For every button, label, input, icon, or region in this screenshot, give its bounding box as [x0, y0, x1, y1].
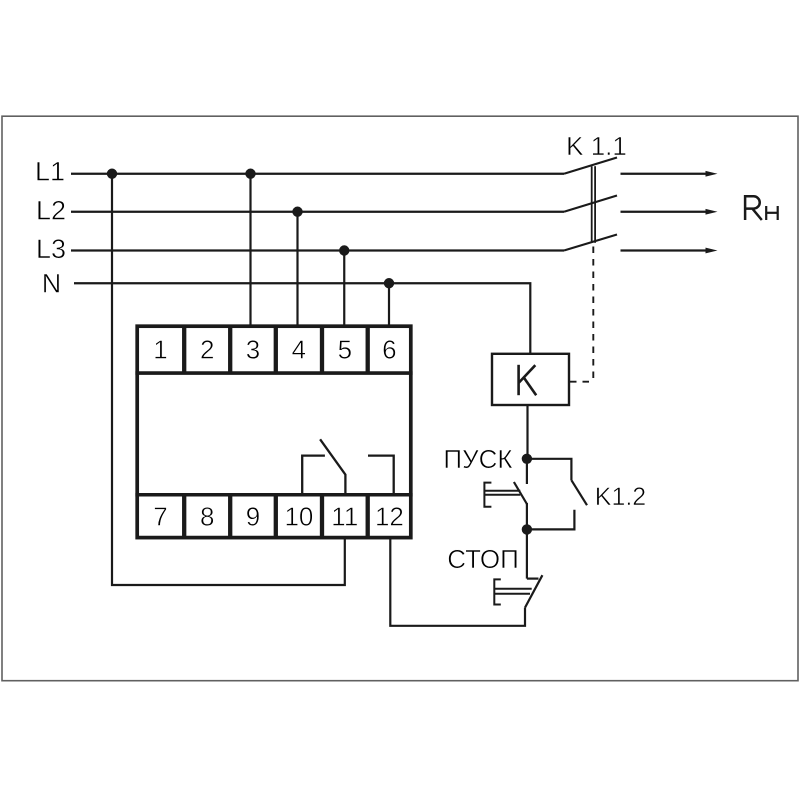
svg-text:12: 12 — [375, 502, 404, 532]
svg-text:9: 9 — [246, 502, 260, 532]
stop button blade — [525, 575, 542, 607]
wire L1 — [71, 173, 564, 175]
internal contact blade terminal 11 — [320, 439, 345, 494]
internal contact arm terminal 10 — [302, 456, 325, 494]
relay device box — [137, 326, 411, 537]
svg-text:7: 7 — [153, 502, 167, 532]
start button plunger — [484, 483, 491, 507]
svg-text:K 1.1: K 1.1 — [566, 131, 627, 161]
svg-text:1: 1 — [153, 335, 167, 365]
linkage bar K1.1 — [591, 166, 593, 243]
svg-text:ПУСК: ПУСК — [443, 444, 512, 474]
device bottom terminal strip line — [135, 493, 412, 497]
junction dot N-term6 — [384, 278, 394, 288]
wire coil K to start node — [526, 405, 528, 456]
stop button plunger — [494, 579, 501, 604]
contact K1.2 lower wire — [529, 510, 574, 530]
svg-text:5: 5 — [338, 335, 352, 365]
svg-text:L2: L2 — [36, 196, 66, 226]
svg-text:4: 4 — [292, 335, 306, 365]
wire terminal 12 to stop button — [390, 539, 525, 626]
wire stop node down — [526, 529, 528, 578]
svg-text:3: 3 — [246, 335, 260, 365]
start button blade — [514, 482, 527, 504]
device top terminal strip line — [135, 371, 412, 375]
arrow out L3 — [621, 249, 707, 251]
coil K letter — [519, 365, 537, 395]
wire L3 — [71, 249, 564, 251]
svg-text:СТОП: СТОП — [447, 544, 519, 574]
arrow out L1 — [621, 173, 707, 175]
wire terminal 5 — [343, 251, 345, 329]
node dot start — [522, 454, 532, 464]
wire N to coil K — [74, 283, 530, 353]
svg-text:8: 8 — [200, 502, 214, 532]
svg-text:10: 10 — [284, 502, 313, 532]
svg-text:L3: L3 — [36, 234, 66, 264]
junction dot L1-left — [107, 169, 117, 179]
dashed link coil to contact — [570, 246, 593, 382]
svg-text:2: 2 — [200, 335, 214, 365]
wire start node down — [526, 459, 528, 484]
svg-text:6: 6 — [382, 335, 396, 365]
contact K1.1 blade L2 — [564, 196, 617, 212]
wire start button to stop node — [526, 503, 528, 529]
bottom row dividers — [184, 495, 368, 538]
arrow out L2 — [621, 211, 707, 213]
coil K box — [492, 354, 569, 405]
contact K1.2 blade — [571, 480, 587, 505]
border frame — [2, 116, 798, 681]
contact K1.1 blade L3 — [564, 235, 617, 251]
contact K1.2 branch wires — [529, 459, 571, 480]
junction dot L3-term5 — [339, 245, 349, 255]
svg-text:K1.2: K1.2 — [595, 483, 646, 511]
svg-text:11: 11 — [331, 502, 358, 532]
wire terminal 3 — [249, 174, 251, 328]
contact K1.1 blade L1 — [564, 158, 617, 174]
wire L2 — [71, 211, 564, 213]
load RH label — [745, 196, 762, 220]
wire terminal 4 — [296, 212, 298, 328]
svg-text:N: N — [42, 268, 62, 298]
svg-text:L1: L1 — [35, 157, 65, 187]
junction dot L1-term3 — [245, 169, 255, 179]
top row dividers — [184, 326, 368, 373]
wire L1 to terminal 11 loop — [112, 174, 345, 585]
junction dot L2-term4 — [292, 207, 302, 217]
node dot stop — [522, 524, 532, 534]
wire terminal 6 — [388, 283, 390, 328]
internal contact arm terminal 12 — [368, 456, 394, 494]
stop button seat — [527, 577, 539, 579]
